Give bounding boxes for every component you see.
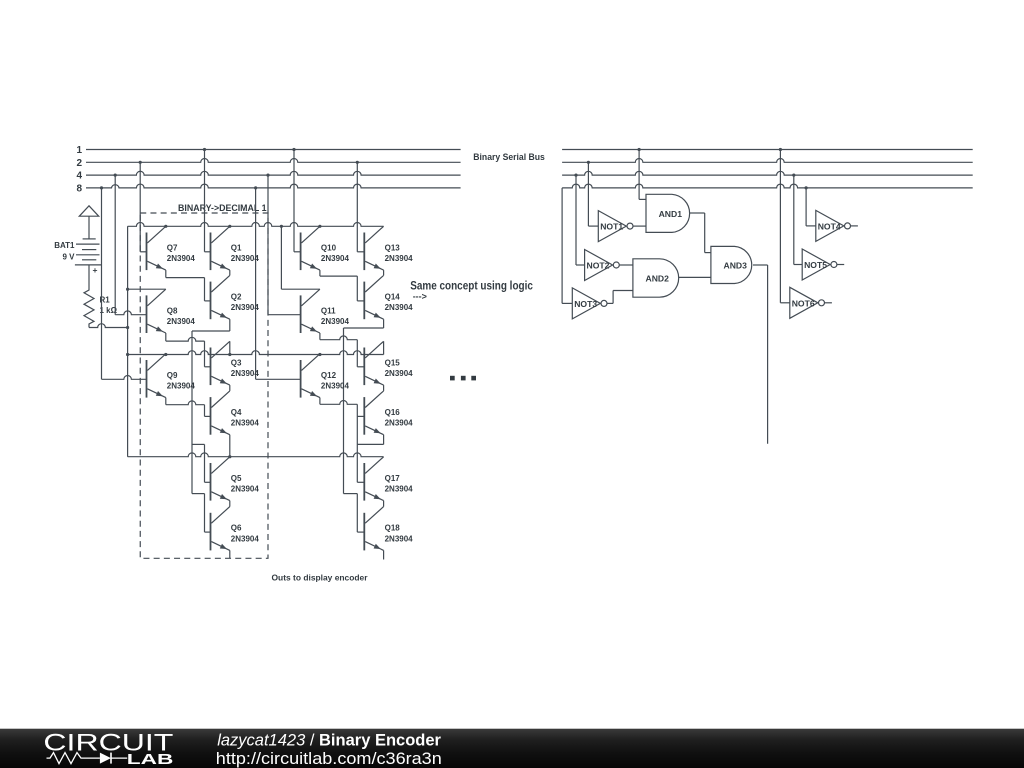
wire Q15 emitter to Q16 collector	[383, 385, 385, 391]
wire NOT1 output to AND1	[633, 225, 646, 227]
svg-text:2N3904: 2N3904	[231, 254, 260, 263]
footer bar	[0, 729, 1024, 768]
and-gate AND3	[711, 246, 752, 283]
svg-text:BINARY->DECIMAL 1: BINARY->DECIMAL 1	[178, 203, 267, 214]
power flag (supply arrow above BAT1)	[79, 206, 98, 239]
logo resistor-diode glyph	[47, 753, 128, 764]
and-gate AND2	[633, 259, 679, 297]
inverter NOT2	[585, 250, 620, 281]
transistor Q4	[211, 391, 260, 435]
wire Q17 emitter to Q18 collector	[383, 501, 385, 507]
wire Q3 emitter to Q4 collector	[229, 385, 231, 391]
svg-text:Q7: Q7	[167, 243, 178, 252]
transistor Q9	[147, 354, 196, 398]
svg-text:8: 8	[76, 184, 82, 195]
wire bus 4 to NOT5 input	[794, 175, 802, 264]
transistor Q8	[147, 289, 196, 333]
wire Q6 emitter output	[229, 550, 231, 558]
resistor R1 1kOhm	[84, 288, 118, 328]
node 4 (binary serial bus line 4, left section)	[76, 171, 460, 182]
logo CIRCUIT text	[43, 729, 173, 756]
wire NOT3 output to AND2	[607, 291, 633, 304]
svg-text:2N3904: 2N3904	[231, 534, 260, 543]
svg-text:9 V: 9 V	[62, 253, 75, 262]
wire Q4 emitter to bottom rail	[229, 435, 231, 457]
wire Q1 emitter to Q2 collector	[229, 270, 231, 275]
svg-text:NOT4: NOT4	[818, 221, 841, 231]
transistor Q1	[211, 226, 260, 270]
wire bus 1 to AND1 input	[639, 150, 646, 200]
svg-text:Q2: Q2	[231, 293, 242, 302]
svg-text:1: 1	[76, 145, 82, 156]
svg-text:Q5: Q5	[231, 474, 242, 483]
transistor Q12	[301, 354, 350, 398]
wire bus 2 to NOT1 input	[588, 162, 598, 226]
svg-text:2N3904: 2N3904	[167, 382, 196, 391]
svg-text:+: +	[93, 265, 98, 275]
svg-text:AND1: AND1	[659, 209, 683, 219]
wire Q13 emitter to Q14 collector	[383, 270, 385, 275]
wire NOT4 output stub	[851, 225, 858, 227]
svg-text:Q3: Q3	[231, 358, 242, 367]
wire NOT5 output stub	[837, 264, 844, 266]
svg-text:Q1: Q1	[231, 243, 242, 252]
transistor Q6	[211, 507, 260, 551]
wire bus 4 to Q11 base	[268, 175, 301, 315]
svg-text:2N3904: 2N3904	[385, 303, 414, 312]
svg-text:NOT2: NOT2	[587, 261, 610, 271]
svg-text:Q11: Q11	[321, 306, 336, 315]
transistor Q15	[364, 341, 413, 385]
wire Q9 emitter to Q4 base	[166, 398, 211, 417]
svg-text:lazycat1423 / Binary Encoder: lazycat1423 / Binary Encoder	[217, 731, 441, 749]
wire AND2 output to AND3	[679, 276, 711, 278]
node ellipsis dots	[450, 376, 476, 381]
node 2 (binary serial bus line 2, left section)	[76, 158, 460, 169]
transistor Q10	[301, 226, 350, 270]
svg-text:Q9: Q9	[167, 371, 178, 380]
svg-text:Q6: Q6	[231, 524, 242, 533]
wire bus 1 to NOT6 input	[780, 150, 789, 303]
node 1 (binary serial bus line 1, left section)	[76, 145, 460, 156]
wire NOT2 output to AND2	[619, 264, 633, 266]
transistor Q7	[147, 226, 196, 270]
svg-text:Q18: Q18	[385, 524, 401, 533]
svg-text:2N3904: 2N3904	[321, 317, 350, 326]
node 4 (binary serial bus line 4, right section)	[562, 171, 973, 176]
wire bus 2 to Q7 base	[140, 162, 146, 252]
inverter NOT4	[816, 210, 851, 241]
svg-text:Q15: Q15	[385, 358, 401, 367]
transistor Q14	[364, 275, 413, 319]
wire bus 4 to Q8 base	[115, 175, 146, 315]
wire Q15 collector stub	[383, 341, 385, 354]
svg-text:Same concept using logic: Same concept using logic	[410, 279, 533, 293]
svg-text:2N3904: 2N3904	[385, 485, 414, 494]
transistor Q17	[364, 457, 413, 501]
svg-text:2N3904: 2N3904	[385, 534, 414, 543]
svg-text:Q10: Q10	[321, 243, 337, 252]
svg-text:4: 4	[76, 171, 82, 182]
and-gate AND1	[646, 194, 690, 232]
svg-text:Q16: Q16	[385, 408, 401, 417]
svg-text:2N3904: 2N3904	[231, 485, 260, 494]
wire Q14 emitter to Q18 base	[344, 319, 384, 532]
wire left vertical rail	[127, 226, 129, 456]
note Same concept using logic	[410, 279, 533, 293]
svg-text:2N3904: 2N3904	[385, 254, 414, 263]
svg-text:NOT3: NOT3	[574, 299, 597, 309]
wire Q12 emitter to Q16 and Q17 bases	[320, 398, 364, 483]
wire bus 8 to Q12 base	[256, 188, 301, 379]
svg-text:Q13: Q13	[385, 243, 401, 252]
svg-text:NOT6: NOT6	[792, 298, 815, 308]
svg-text:NOT1: NOT1	[600, 222, 623, 232]
transistor Q5	[211, 457, 260, 501]
node 1 (binary serial bus line 1, right section)	[562, 148, 973, 151]
node Binary Serial Bus label	[473, 152, 545, 163]
transistor Q13	[364, 226, 413, 270]
transistor Q3	[211, 341, 260, 385]
wire bus 2 to Q13 base	[357, 162, 364, 252]
wire middle rail	[126, 351, 384, 356]
wire bottom rail	[128, 453, 384, 458]
svg-text:2N3904: 2N3904	[231, 369, 260, 378]
wire Q10 emitter to Q14 base	[320, 270, 364, 301]
wire bus 1 to Q10 base	[294, 150, 301, 252]
svg-text:--->: --->	[413, 292, 427, 302]
wire AND1 output to AND3	[690, 213, 711, 253]
inverter NOT1	[598, 211, 633, 242]
wire Q5 emitter to Q6 collector	[229, 501, 231, 507]
svg-text:http://circuitlab.com/c36ra3n: http://circuitlab.com/c36ra3n	[216, 750, 442, 768]
transistor Q11	[301, 289, 350, 333]
wire bus 1 to Q1 base	[205, 150, 211, 252]
wire NOT6 output stub	[825, 302, 832, 304]
svg-text:Q4: Q4	[231, 408, 242, 417]
svg-text:2N3904: 2N3904	[231, 419, 260, 428]
svg-text:Binary Serial Bus: Binary Serial Bus	[473, 152, 545, 163]
svg-text:Q8: Q8	[167, 306, 178, 315]
svg-text:AND3: AND3	[724, 261, 748, 271]
wire bus 4 to NOT2 input	[576, 175, 585, 265]
wire Q8 collector tap	[126, 288, 166, 291]
svg-text:2N3904: 2N3904	[385, 419, 414, 428]
wire Q3 collector stub	[229, 341, 231, 354]
svg-text:2N3904: 2N3904	[321, 382, 350, 391]
transistor Q2	[211, 275, 260, 319]
wire bus 8 to Q9 base	[102, 188, 147, 379]
svg-text:Q17: Q17	[385, 474, 401, 483]
svg-text:2N3904: 2N3904	[321, 254, 350, 263]
inverter NOT6	[790, 287, 825, 318]
transistor Q18	[364, 507, 413, 551]
svg-text:2: 2	[76, 158, 82, 169]
svg-text:2N3904: 2N3904	[167, 317, 196, 326]
wire R1 bottom to left rail	[89, 324, 129, 329]
transistor Q16	[364, 391, 413, 435]
inverter NOT3	[572, 288, 607, 319]
wire bus 8 to NOT3 input	[562, 188, 572, 304]
node 8 (binary serial bus line 8, right section)	[562, 184, 973, 189]
wire rail drop to Q11 collector	[281, 226, 320, 289]
svg-text:AND2: AND2	[646, 274, 670, 284]
svg-text:Outs to display encoder: Outs to display encoder	[272, 573, 369, 583]
wire Q2 emitter to Q5 and Q6 bases	[192, 319, 230, 532]
svg-text:LAB: LAB	[127, 752, 174, 768]
svg-text:Q12: Q12	[321, 371, 337, 380]
dashed box BINARY->DECIMAL 1	[140, 203, 268, 558]
battery BAT1 9V	[54, 241, 101, 288]
svg-text:BAT1: BAT1	[54, 241, 75, 250]
footer title lazycat1423 / Binary Encoder	[217, 731, 441, 749]
wire Q7 emitter to Q2 base	[166, 270, 211, 301]
svg-text:2N3904: 2N3904	[385, 369, 414, 378]
wire Q8 emitter to Q3 base	[166, 333, 211, 367]
wire AND3 output	[753, 265, 768, 444]
inverter NOT5	[802, 249, 837, 280]
wire bus 8 to NOT4 input	[806, 188, 816, 226]
node 2 (binary serial bus line 2, right section)	[562, 159, 973, 164]
svg-text:Q14: Q14	[385, 293, 401, 302]
wire collector rail (top)	[128, 222, 384, 227]
wire Q18 emitter output	[383, 550, 385, 559]
svg-text:2N3904: 2N3904	[231, 303, 260, 312]
wire Q16 emitter to Q17 base branch	[357, 435, 383, 445]
logo LAB text	[127, 752, 174, 768]
svg-text:2N3904: 2N3904	[167, 254, 196, 263]
node 8 (binary serial bus line 8, left section)	[76, 184, 460, 195]
wire Q11 emitter to Q15 base	[320, 333, 364, 367]
footer url http://circuitlab.com/c36ra3n	[216, 750, 442, 768]
svg-text:NOT5: NOT5	[804, 260, 827, 270]
note Outs to display encoder	[272, 573, 369, 583]
